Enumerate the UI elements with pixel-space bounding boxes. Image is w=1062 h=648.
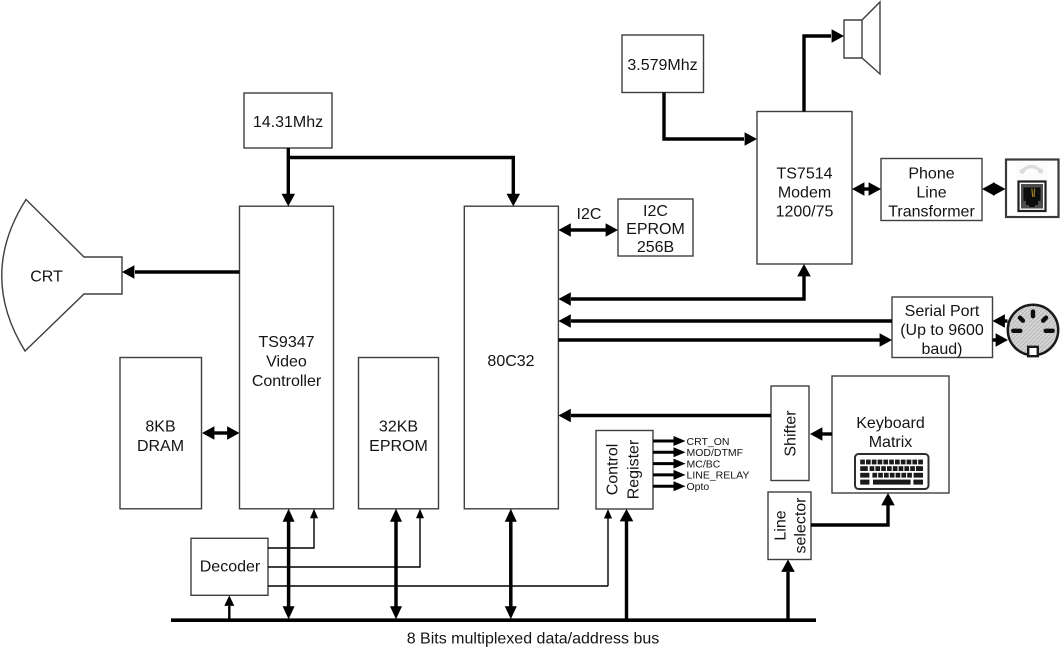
- wire decoder select to TS9347: [268, 509, 318, 548]
- wire TS7514 to speaker: [804, 29, 844, 111]
- block Line selector: [768, 492, 811, 560]
- svg-text:Phone: Phone: [908, 166, 954, 183]
- keyboard icon: [855, 454, 929, 489]
- label bus: [407, 631, 660, 648]
- svg-text:1200/75: 1200/75: [776, 204, 834, 221]
- wire Line selector to Keyboard Matrix: [811, 493, 895, 525]
- block 80C32 microcontroller: [464, 206, 558, 509]
- label signal LINE_RELAY: [687, 470, 750, 482]
- phone wall-jack icon: [1006, 160, 1059, 218]
- wire 80C32 to Serial Port tx: [558, 333, 892, 347]
- svg-text:Shifter: Shifter: [783, 410, 800, 457]
- svg-text:Line: Line: [773, 510, 790, 540]
- speaker symbol: [844, 2, 880, 74]
- wire decoder select to 32KB EPROM: [268, 509, 424, 567]
- wire Serial Port to 80C32 rx: [558, 314, 892, 328]
- wire TS9347 to CRT video out: [122, 265, 240, 279]
- block I2C EPROM 256B: [618, 199, 693, 256]
- svg-text:I2C: I2C: [577, 206, 602, 223]
- block 14.31Mhz oscillator: [244, 93, 332, 148]
- block 3.579Mhz oscillator: [622, 35, 704, 93]
- block Control Register: [596, 431, 653, 510]
- wire bus to Decoder: [224, 595, 234, 618]
- svg-text:I2C: I2C: [643, 203, 668, 220]
- svg-text:LINE_RELAY: LINE_RELAY: [687, 470, 750, 482]
- wire bus link TS9347 data/address: [283, 509, 295, 619]
- svg-text:Decoder: Decoder: [200, 558, 261, 575]
- wire bus to Line selector: [781, 560, 795, 619]
- svg-text:8KB: 8KB: [145, 419, 175, 436]
- block Shifter: [771, 386, 809, 481]
- wire TS7514 to 80C32 serial link: [558, 264, 810, 306]
- svg-text:Modem: Modem: [778, 185, 831, 202]
- wire 80C32 to I2C EPROM bidirectional: [558, 223, 618, 237]
- wire bus link 32KB EPROM data/address: [390, 509, 402, 619]
- block TS7514 Modem 1200/75: [757, 112, 852, 265]
- svg-text:80C32: 80C32: [487, 353, 534, 370]
- svg-text:Opto: Opto: [687, 481, 710, 493]
- wire 8KB DRAM to TS9347 bidirectional: [202, 426, 240, 440]
- svg-text:EPROM: EPROM: [369, 438, 428, 455]
- svg-text:14.31Mhz: 14.31Mhz: [253, 114, 323, 131]
- block Keyboard Matrix: [832, 376, 949, 493]
- label signal MC/BC: [687, 458, 721, 470]
- svg-text:Transformer: Transformer: [888, 204, 975, 221]
- svg-text:256B: 256B: [637, 239, 674, 256]
- svg-text:TS7514: TS7514: [776, 166, 832, 183]
- svg-text:Matrix: Matrix: [869, 434, 913, 451]
- label signal MOD/DTMF: [687, 447, 744, 459]
- wire Shifter to 80C32: [558, 409, 771, 423]
- svg-text:Serial Port: Serial Port: [905, 303, 980, 320]
- svg-text:Keyboard: Keyboard: [856, 415, 925, 432]
- svg-text:DRAM: DRAM: [137, 438, 184, 455]
- wire decoder select run to Control Register column: [268, 585, 608, 587]
- block Serial Port (Up to 9600 baud): [892, 297, 993, 358]
- wire bus to Control Register: [620, 509, 634, 619]
- svg-text:8 Bits multiplexed data/addres: 8 Bits multiplexed data/address bus: [407, 631, 660, 648]
- svg-text:Video: Video: [266, 354, 307, 371]
- wire bus link 80C32 data/address: [505, 509, 517, 619]
- label signal CRT_ON: [687, 436, 730, 448]
- svg-text:Line: Line: [916, 185, 946, 202]
- wire Serial Port to DIN rx: [993, 314, 1008, 328]
- svg-text:Control: Control: [605, 444, 622, 496]
- wire 14.31Mhz branch to 80C32 clock: [288, 158, 520, 207]
- svg-text:CRT: CRT: [30, 269, 63, 286]
- wire Keyboard Matrix to Shifter: [810, 427, 832, 441]
- block Phone Line Transformer: [881, 159, 982, 221]
- svg-text:MOD/DTMF: MOD/DTMF: [687, 447, 744, 459]
- svg-text:32KB: 32KB: [379, 419, 418, 436]
- svg-text:MC/BC: MC/BC: [687, 458, 721, 470]
- svg-text:3.579Mhz: 3.579Mhz: [627, 57, 697, 74]
- wire Control Register output Opto: [653, 481, 686, 491]
- block 8KB DRAM: [120, 358, 202, 509]
- block TS9347 Video Controller: [240, 206, 334, 509]
- wire decoder select to Control Register: [604, 509, 612, 586]
- wire Phone Line Transformer to phone jack bidirectional: [982, 182, 1006, 196]
- svg-text:TS9347: TS9347: [258, 334, 314, 351]
- label I2C bus: [577, 206, 602, 223]
- wire Control Register output MC/BC: [653, 459, 686, 469]
- block 32KB EPROM: [359, 358, 439, 509]
- wire 3.579Mhz to TS7514 clock: [664, 93, 757, 146]
- wire TS7514 to Phone Line Transformer bidirectional: [852, 182, 881, 196]
- svg-text:CRT_ON: CRT_ON: [687, 436, 730, 448]
- label signal Opto: [687, 481, 710, 493]
- svg-text:(Up to 9600: (Up to 9600: [900, 322, 984, 339]
- block Decoder: [191, 538, 268, 595]
- wire Control Register output MOD/DTMF: [653, 447, 686, 457]
- svg-text:baud): baud): [922, 341, 963, 358]
- wire Control Register output LINE_RELAY: [653, 470, 686, 480]
- svg-text:EPROM: EPROM: [626, 221, 685, 238]
- svg-text:selector: selector: [793, 497, 810, 554]
- wire Serial Port to DIN tx: [993, 333, 1009, 347]
- svg-text:Register: Register: [626, 439, 643, 499]
- bus 8-bit multiplexed data/address: [171, 618, 816, 622]
- wire Control Register output CRT_ON: [653, 436, 686, 446]
- CRT display symbol: [2, 200, 122, 352]
- DIN-5 serial connector icon: [1008, 305, 1058, 356]
- svg-text:Controller: Controller: [252, 373, 322, 390]
- wire 14.31Mhz to TS9347 clock: [282, 148, 296, 206]
